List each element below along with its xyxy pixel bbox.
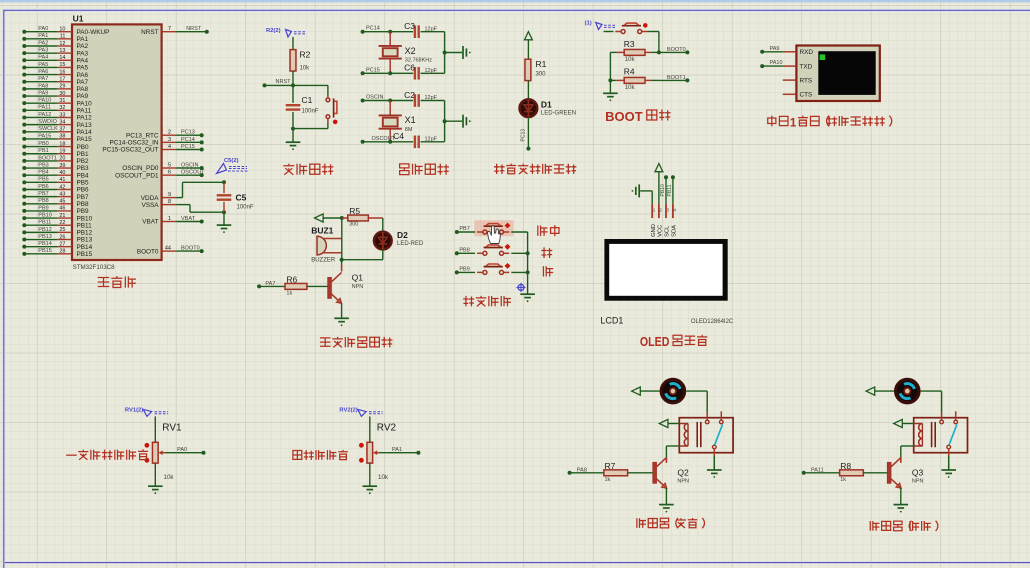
- pin PA4 (14) wire PA4: [22, 55, 88, 65]
- svg-text:OLED: OLED: [640, 335, 670, 349]
- svg-text:RV2(2): RV2(2): [339, 407, 357, 413]
- svg-text:VCC: VCC: [658, 225, 664, 237]
- power arrow (motor R7): [632, 387, 660, 395]
- svg-text:PA12: PA12: [38, 112, 51, 118]
- svg-text:30: 30: [59, 91, 65, 97]
- svg-text:PA8: PA8: [38, 83, 48, 89]
- svg-text:D2: D2: [397, 230, 408, 240]
- svg-text:PB3: PB3: [38, 162, 48, 168]
- svg-text:PC15-OSC32_OUT: PC15-OSC32_OUT: [102, 147, 158, 154]
- svg-text:OSCOUT: OSCOUT: [181, 170, 205, 176]
- svg-text:OSCIN: OSCIN: [181, 162, 198, 168]
- svg-text:10k: 10k: [625, 57, 636, 63]
- svg-text:3: 3: [667, 207, 670, 212]
- svg-text:D1: D1: [541, 100, 552, 110]
- svg-text:PC13_RTC: PC13_RTC: [126, 132, 159, 139]
- svg-text:PB9: PB9: [77, 208, 90, 215]
- svg-text:BUZZER: BUZZER: [311, 258, 336, 264]
- wire boot button right to BOOT0: [648, 32, 661, 55]
- resistor R6 1k: [257, 275, 328, 297]
- svg-text:C5: C5: [236, 193, 247, 203]
- svg-text:PB1: PB1: [38, 148, 48, 154]
- ground C5: [217, 212, 232, 233]
- svg-text:PB4: PB4: [38, 170, 48, 176]
- power arrow VCC (LED): [525, 32, 533, 60]
- wire motor to relay R7: [686, 391, 707, 412]
- label 加: [541, 247, 552, 258]
- svg-text:31: 31: [59, 98, 65, 104]
- pin PA6 (16) wire PA6: [22, 69, 88, 79]
- virtual terminal (serial window): [783, 46, 880, 102]
- svg-text:14: 14: [59, 55, 65, 61]
- capacitor C3 12pF: [404, 21, 438, 38]
- svg-text:PA2: PA2: [77, 43, 89, 50]
- svg-text:5: 5: [168, 162, 171, 168]
- svg-text:PA10: PA10: [770, 60, 783, 66]
- resistor R7 1k: [568, 461, 653, 483]
- ground Q1: [334, 303, 349, 326]
- svg-text:STM32F103C8: STM32F103C8: [73, 264, 116, 271]
- capacitor C6 12pF: [404, 63, 438, 80]
- relay R7: [679, 411, 733, 452]
- svg-text:PC14-OSC32_IN: PC14-OSC32_IN: [109, 140, 158, 147]
- resistor R4 10k: [610, 67, 659, 91]
- svg-text:BOOT0: BOOT0: [181, 246, 200, 252]
- push-button reset (vertical): [326, 96, 338, 124]
- svg-text:15: 15: [59, 62, 65, 68]
- svg-text:BOOT0: BOOT0: [667, 47, 686, 53]
- ground Q2 emitter: [659, 488, 674, 512]
- svg-text:7: 7: [168, 26, 171, 32]
- svg-text:LCD1: LCD1: [600, 316, 623, 326]
- svg-text:17: 17: [59, 77, 65, 83]
- pin PB1 (19) wire PB1: [22, 148, 89, 158]
- svg-text:2: 2: [659, 207, 662, 212]
- node OSCOUT: [361, 136, 414, 144]
- resistor R1 300: [525, 59, 547, 81]
- svg-text:10k: 10k: [378, 474, 389, 481]
- svg-text:PC15: PC15: [366, 67, 380, 73]
- svg-text:PA9: PA9: [77, 93, 89, 100]
- pin PA13 (34) wire SWDIO: [22, 119, 92, 129]
- svg-text:1: 1: [168, 216, 171, 222]
- svg-text:C2: C2: [404, 90, 415, 100]
- svg-text:PB0: PB0: [77, 144, 90, 151]
- svg-text:PC15: PC15: [181, 144, 195, 150]
- pin PB3 (39) wire PB3: [22, 162, 89, 172]
- svg-text:PB0: PB0: [38, 141, 48, 147]
- svg-text:PA8: PA8: [77, 86, 89, 93]
- svg-text:27: 27: [59, 241, 65, 247]
- svg-text:PB12: PB12: [77, 230, 93, 237]
- svg-text:(1): (1): [585, 20, 592, 26]
- svg-text:PA1: PA1: [392, 447, 402, 453]
- svg-text:LED-GREEN: LED-GREEN: [541, 111, 576, 117]
- svg-text:PA3: PA3: [38, 48, 48, 54]
- ground crystal X1 (sideways): [445, 115, 471, 128]
- svg-text:37: 37: [59, 127, 65, 133]
- svg-text:18: 18: [59, 141, 65, 147]
- svg-text:25: 25: [59, 227, 65, 233]
- transistor Q2 NPN: [653, 457, 689, 488]
- pin PB2 (20) wire BOOT1: [22, 155, 89, 165]
- svg-text:VBAT: VBAT: [142, 219, 158, 226]
- pin VBAT (1) wire VBAT: [142, 216, 203, 226]
- svg-text:300: 300: [536, 72, 547, 78]
- node PC14: [361, 26, 414, 34]
- svg-text:PA12: PA12: [77, 115, 93, 122]
- power arrow (relay coil R8): [894, 419, 914, 427]
- relay R8: [914, 411, 968, 452]
- svg-text:PA1: PA1: [38, 33, 48, 39]
- buzzer BUZ1: [311, 218, 342, 264]
- wire boot button left: [604, 31, 614, 33]
- wire SDA to PB11: [667, 175, 675, 204]
- svg-text:28: 28: [59, 249, 65, 255]
- wire reset bottom rail: [291, 123, 328, 131]
- svg-text:12: 12: [59, 41, 65, 47]
- svg-text:RTS: RTS: [800, 78, 813, 85]
- pin PB12 (25) wire PB12: [22, 227, 92, 237]
- wire motor to relay R8: [921, 391, 942, 412]
- wire RV1 top: [154, 416, 156, 442]
- ground reset: [286, 129, 301, 151]
- wire wiper to PA1: [379, 447, 420, 455]
- svg-text:R2: R2: [300, 50, 311, 60]
- svg-text:PA14: PA14: [77, 129, 93, 136]
- wire R2 top: [292, 37, 294, 50]
- pin NRST (7) wire NRST: [141, 26, 209, 36]
- svg-text:R8: R8: [840, 461, 851, 471]
- wire R2 to NRST node: [292, 71, 294, 85]
- svg-text:43: 43: [59, 191, 65, 197]
- svg-text:PA15: PA15: [77, 136, 93, 143]
- svg-text:PA4: PA4: [38, 55, 48, 61]
- svg-text:PB4: PB4: [77, 172, 90, 179]
- ground OLED (sideways left): [632, 184, 653, 203]
- pin PB5 (41) wire PB5: [22, 177, 89, 187]
- wire RV2 top: [369, 416, 371, 442]
- led D1 LED-GREEN: [520, 99, 576, 117]
- svg-text:PC14: PC14: [366, 26, 380, 32]
- svg-text:RV2: RV2: [377, 423, 397, 434]
- svg-text:PB6: PB6: [77, 187, 90, 194]
- svg-text:1k: 1k: [286, 290, 292, 296]
- svg-text:PB13: PB13: [38, 234, 51, 240]
- resistor R2 10k: [290, 50, 311, 72]
- svg-text:PA10: PA10: [38, 98, 51, 104]
- cursor hand: [488, 226, 501, 244]
- svg-text:PB8: PB8: [77, 201, 90, 208]
- svg-text:PC13: PC13: [181, 130, 195, 136]
- svg-text:PA9: PA9: [38, 90, 48, 96]
- svg-text:R5: R5: [349, 206, 360, 216]
- pin PA14 (37) wire SWCLK: [22, 126, 92, 136]
- svg-text:U1: U1: [73, 13, 84, 23]
- svg-text:10k: 10k: [300, 66, 311, 72]
- svg-text:SDA: SDA: [672, 225, 678, 237]
- svg-text:GND: GND: [651, 224, 657, 237]
- wire C2 to rail: [421, 101, 445, 122]
- svg-text:BUZ1: BUZ1: [311, 226, 333, 236]
- svg-text:NRST: NRST: [141, 29, 158, 36]
- svg-text:TXD: TXD: [800, 64, 813, 71]
- svg-text:100nF: 100nF: [237, 205, 254, 211]
- svg-text:38: 38: [59, 134, 65, 140]
- svg-text:1k: 1k: [605, 477, 611, 483]
- svg-text:PB7: PB7: [77, 194, 90, 201]
- wire NRST to reset button: [293, 85, 328, 96]
- svg-text:PB2: PB2: [77, 158, 90, 165]
- svg-text:33: 33: [59, 112, 65, 118]
- svg-text:BOOT1: BOOT1: [38, 155, 57, 161]
- svg-text:PA7: PA7: [77, 79, 89, 86]
- svg-text:PA6: PA6: [38, 69, 48, 75]
- svg-text:Q1: Q1: [352, 273, 364, 283]
- svg-text:PA11: PA11: [38, 105, 51, 111]
- pin PA3 (13) wire PA3: [22, 48, 88, 58]
- wire SCL to PB10: [660, 175, 668, 204]
- svg-text:PB15: PB15: [77, 251, 93, 258]
- svg-text:10: 10: [59, 27, 65, 33]
- svg-text:PA7: PA7: [38, 76, 48, 82]
- resistor R5 300: [342, 206, 383, 227]
- label 复位电路: [283, 164, 333, 175]
- wire C4 to rail: [421, 119, 447, 142]
- crystal X1 8M: [379, 99, 416, 142]
- svg-text:3: 3: [168, 137, 171, 143]
- power arrow (motor R8): [866, 387, 894, 395]
- svg-text:PA5: PA5: [38, 62, 48, 68]
- pin OSCIN_PD0 (5) wire OSCIN: [122, 162, 203, 172]
- svg-text:Q3: Q3: [912, 467, 924, 477]
- svg-text:100nF: 100nF: [302, 109, 319, 115]
- pin PB11 (22) wire PB11: [22, 220, 92, 230]
- svg-text:PA6: PA6: [77, 72, 89, 79]
- capacitor C1 100nF: [286, 85, 319, 128]
- svg-text:PB6: PB6: [38, 184, 48, 190]
- pin PB10 (21) wire PB10: [22, 212, 92, 222]
- svg-text:4: 4: [673, 207, 676, 212]
- svg-text:VSSA: VSSA: [141, 202, 159, 209]
- node PA9: [760, 46, 783, 54]
- label 串口1窗口（模拟手机端）: [768, 116, 892, 130]
- pin VDDA (9) wire to C5: [141, 180, 226, 202]
- svg-text:PB9: PB9: [38, 205, 48, 211]
- svg-text:R6: R6: [286, 275, 297, 285]
- ground crystal X2 (sideways): [445, 46, 471, 59]
- svg-text:PB11: PB11: [38, 220, 51, 226]
- svg-text:PB15: PB15: [38, 248, 51, 254]
- svg-text:NPN: NPN: [677, 478, 689, 484]
- svg-text:SWDIO: SWDIO: [38, 119, 57, 125]
- label 声光报警电路: [320, 337, 393, 348]
- pin PB0 (18) wire PB0: [22, 141, 89, 151]
- svg-text:OSCOUT_PD1: OSCOUT_PD1: [115, 172, 159, 179]
- svg-text:PA0: PA0: [38, 26, 48, 32]
- label 设置: [538, 225, 559, 236]
- annotation (1) pointer: [585, 20, 617, 29]
- pin PB6 (42) wire PB6: [22, 184, 89, 194]
- pin PB9 (46) wire PB9: [22, 205, 89, 215]
- pin PB14 (27) wire PB14: [22, 241, 92, 251]
- svg-text:PB1: PB1: [77, 151, 90, 158]
- ground RV2: [363, 463, 378, 494]
- svg-text:29: 29: [59, 84, 65, 90]
- svg-text:45: 45: [59, 199, 65, 205]
- annotation C5(2) pointer: [217, 158, 249, 174]
- svg-text:PA3: PA3: [77, 50, 89, 57]
- window top strip: [0, 0, 1030, 2]
- pin PA12 (33) wire PA12: [22, 112, 92, 122]
- svg-text:PA2: PA2: [38, 40, 48, 46]
- svg-text:LED-RED: LED-RED: [397, 241, 424, 247]
- capacitor C4 12pF: [393, 131, 438, 148]
- svg-text:PA11: PA11: [77, 108, 92, 115]
- potentiometer RV2 10k: [359, 423, 397, 481]
- svg-text:16: 16: [59, 69, 65, 75]
- svg-text:PB8: PB8: [38, 198, 48, 204]
- svg-text:42: 42: [59, 184, 65, 190]
- push-button key PB8: [455, 244, 528, 255]
- svg-text:PB5: PB5: [77, 180, 90, 187]
- node BOOT0: [659, 47, 690, 54]
- svg-text:PB13: PB13: [77, 237, 93, 244]
- svg-text:OSCIN_PD0: OSCIN_PD0: [122, 165, 159, 172]
- motor fan R7: [661, 379, 684, 402]
- pin PA9 (30) wire PA9: [22, 90, 88, 100]
- svg-text:C5(2): C5(2): [224, 158, 239, 164]
- potentiometer RV1 10k: [145, 423, 183, 481]
- svg-text:PC13: PC13: [521, 129, 527, 142]
- svg-text:PB10: PB10: [77, 215, 93, 222]
- ground Q3 emitter: [894, 488, 909, 512]
- svg-text:NRST: NRST: [186, 26, 202, 32]
- label 甲醛值调节: [293, 450, 348, 460]
- svg-text:OSCIN: OSCIN: [366, 95, 383, 101]
- svg-text:8: 8: [168, 199, 171, 205]
- svg-text:NRST: NRST: [276, 79, 292, 85]
- svg-text:PB14: PB14: [77, 244, 93, 251]
- pin PA2 (12) wire PA2: [22, 40, 88, 50]
- svg-text:PA13: PA13: [77, 122, 93, 129]
- node PC15: [361, 67, 414, 75]
- svg-text:R7: R7: [605, 461, 616, 471]
- wire D2 to junction: [340, 249, 383, 261]
- svg-text:PA15: PA15: [38, 133, 51, 139]
- label 主芯片: [98, 276, 136, 288]
- label 程序运行指示灯: [494, 164, 576, 174]
- svg-text:VDDA: VDDA: [141, 195, 159, 202]
- svg-text:4: 4: [168, 144, 171, 150]
- svg-text:19: 19: [59, 149, 65, 155]
- power arrow VCC OLED: [655, 164, 663, 204]
- svg-text:32: 32: [59, 105, 65, 111]
- pin PC15-OSC32_OUT (4) wire PC15: [102, 144, 203, 154]
- svg-text:BOOT0: BOOT0: [137, 248, 159, 255]
- svg-text:C1: C1: [302, 95, 313, 105]
- svg-text:PA0: PA0: [177, 447, 187, 453]
- svg-text:22: 22: [59, 220, 65, 226]
- svg-text:PB7: PB7: [38, 191, 48, 197]
- resistor R8 1k: [802, 461, 888, 483]
- pin PA11 (32) wire PA11: [22, 105, 91, 115]
- pin PC14-OSC32_IN (3) wire PC14: [109, 137, 203, 147]
- svg-text:34: 34: [59, 119, 65, 125]
- annotation R2(2) pointer: [266, 28, 306, 37]
- svg-text:BOOT: BOOT: [605, 110, 643, 124]
- svg-text:10k: 10k: [164, 474, 175, 481]
- wire keys rail: [526, 232, 530, 294]
- push-button key PB9: [455, 263, 528, 274]
- wire R5 to D2: [382, 218, 384, 232]
- wire coil to Q3 collector: [901, 446, 914, 458]
- label OLED显示屏: [640, 335, 707, 349]
- node BOOT1: [659, 75, 690, 82]
- wire buzzer to Q1 collector: [341, 253, 343, 265]
- motor fan R8: [896, 379, 919, 402]
- capacitor C5 100nF: [217, 182, 254, 212]
- pin PA10 (31) wire PA10: [22, 98, 92, 108]
- wire R3 to R4 rail: [608, 52, 612, 82]
- ground RV1: [148, 463, 163, 494]
- ground keys: [520, 294, 535, 302]
- highlight on key PB7: [474, 220, 513, 236]
- svg-text:PB10: PB10: [660, 184, 666, 196]
- svg-text:SCL: SCL: [665, 225, 671, 237]
- svg-text:PB11: PB11: [667, 184, 673, 196]
- svg-text:PA4: PA4: [77, 57, 89, 64]
- svg-text:21: 21: [59, 213, 65, 219]
- origin marker (blue crosshair): [517, 283, 526, 292]
- svg-text:X2: X2: [405, 46, 416, 56]
- transistor Q1 NPN: [328, 265, 364, 304]
- svg-text:PA10: PA10: [77, 100, 93, 107]
- label 减: [543, 266, 553, 276]
- led D2 LED-RED: [374, 230, 424, 249]
- svg-text:1: 1: [790, 116, 797, 129]
- svg-text:10k: 10k: [625, 85, 636, 91]
- svg-text:NPN: NPN: [912, 478, 924, 484]
- pin PB15 (28) wire PB15: [22, 248, 92, 258]
- wire C6 to rail: [421, 51, 447, 74]
- pin PA8 (29) wire PA8: [22, 83, 88, 93]
- svg-text:PB11: PB11: [77, 222, 93, 229]
- svg-text:NPN: NPN: [352, 284, 364, 290]
- crystal X2 32.768KHz: [379, 30, 433, 74]
- svg-text:39: 39: [59, 163, 65, 169]
- op-chip U1 body: [72, 13, 162, 271]
- svg-text:OLED12864I2C: OLED12864I2C: [691, 319, 734, 325]
- svg-text:PA9: PA9: [770, 46, 780, 52]
- svg-text:40: 40: [59, 170, 65, 176]
- svg-text:46: 46: [59, 206, 65, 212]
- label 继电器(净化): [870, 521, 938, 531]
- label 独立按键: [463, 296, 511, 307]
- svg-text:PA5: PA5: [77, 65, 89, 72]
- pin VSSA (8) wire to C5 bottom: [141, 199, 226, 214]
- svg-text:20: 20: [59, 156, 65, 162]
- svg-text:PC14: PC14: [181, 137, 195, 143]
- label 晶振电路: [400, 164, 449, 175]
- wire coil to Q2 collector: [666, 446, 679, 458]
- svg-text:13: 13: [59, 48, 65, 54]
- svg-text:SWCLK: SWCLK: [38, 126, 58, 132]
- label BOOT电路: [605, 109, 670, 123]
- svg-text:Q2: Q2: [677, 467, 689, 477]
- pin PA1 (11) wire PA1: [22, 33, 88, 43]
- push-button key PB7: [455, 223, 528, 234]
